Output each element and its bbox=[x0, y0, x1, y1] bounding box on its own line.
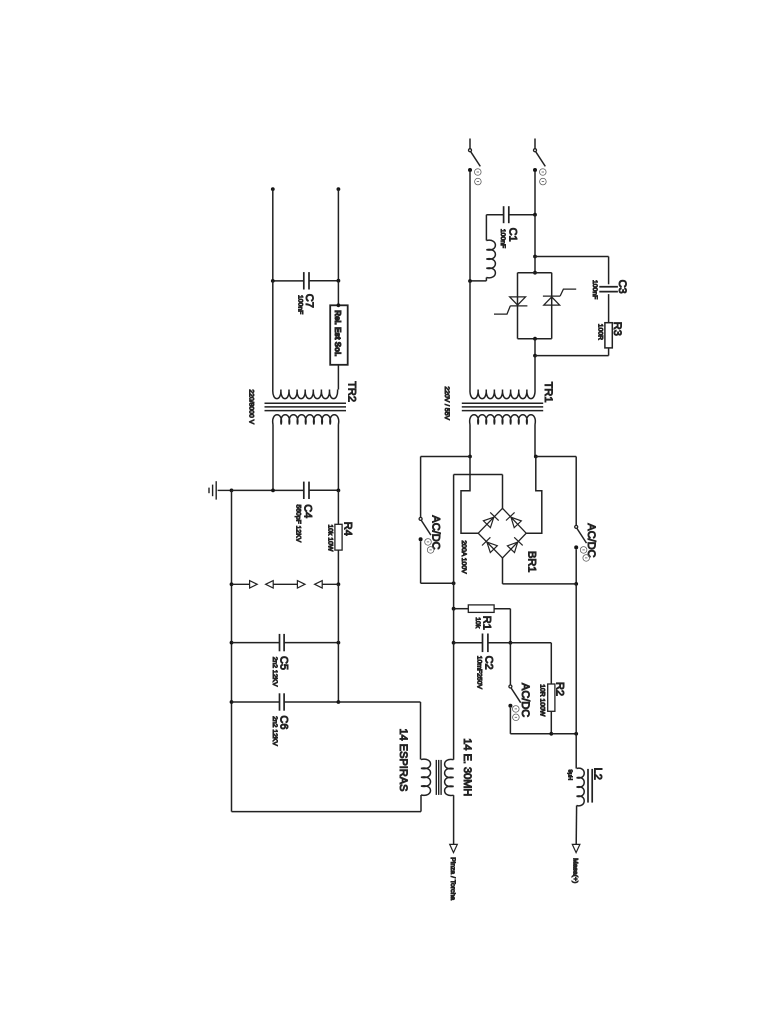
arrow output Pinza/Torcha bbox=[450, 844, 458, 852]
wire bbox=[338, 701, 420, 703]
wire bbox=[309, 489, 338, 491]
junction bbox=[230, 582, 234, 586]
capacitor C3 bbox=[599, 287, 618, 292]
contact bbox=[419, 537, 423, 541]
wire bbox=[534, 356, 536, 390]
node: HV input right bbox=[337, 187, 341, 191]
wire bbox=[470, 280, 486, 282]
relay box Rel. Est Sol. bbox=[330, 305, 348, 365]
svg-text:560pF 12KV: 560pF 12KV bbox=[295, 505, 302, 543]
capacitor C2 bbox=[483, 634, 488, 653]
wire to bridge AC right bbox=[526, 457, 542, 534]
wire switch S2 input stub bbox=[534, 139, 536, 149]
wire bbox=[454, 642, 483, 644]
wire bbox=[454, 608, 469, 610]
svg-text:10R 100W: 10R 100W bbox=[538, 684, 545, 717]
switch AC/DC (left) bbox=[419, 517, 422, 520]
junction bbox=[337, 279, 341, 283]
wire bbox=[322, 583, 338, 585]
wire bbox=[503, 583, 577, 585]
wire bbox=[510, 642, 551, 644]
svg-text:14 ESPIRAS: 14 ESPIRAS bbox=[397, 729, 409, 792]
switch terminal symbol bbox=[475, 178, 482, 185]
junction bbox=[468, 455, 472, 459]
wire bridge - output bbox=[502, 558, 504, 584]
wire right DC rail bbox=[575, 584, 577, 734]
junction bbox=[574, 732, 578, 736]
switch terminal symbol bbox=[513, 714, 520, 721]
resistor R4 bbox=[335, 524, 342, 550]
junction bbox=[337, 641, 341, 645]
inductor L1 coil bbox=[486, 240, 495, 278]
wire bbox=[337, 425, 339, 491]
wire bbox=[309, 280, 338, 282]
wire bottom return bbox=[232, 811, 422, 813]
junction bbox=[271, 279, 275, 283]
junction bbox=[230, 700, 234, 704]
wire bbox=[420, 795, 422, 812]
arrow output Masa(+) bbox=[572, 844, 580, 852]
wire bbox=[420, 541, 422, 583]
wire bbox=[534, 425, 536, 457]
wire left DC rail bbox=[453, 475, 455, 609]
wire bridge + output bbox=[502, 475, 504, 509]
wire bbox=[453, 643, 455, 760]
junction bbox=[230, 641, 234, 645]
wire bbox=[469, 281, 471, 390]
wire bbox=[337, 365, 339, 390]
contact bbox=[508, 704, 512, 708]
junction bbox=[574, 582, 578, 586]
wire left HV rail bbox=[231, 490, 233, 811]
wire bbox=[608, 257, 610, 285]
svg-text:C3: C3 bbox=[616, 280, 628, 294]
wire switch S1 input stub bbox=[469, 139, 471, 149]
wire bbox=[337, 643, 339, 702]
switch S2 (mains right) bbox=[534, 149, 537, 152]
svg-text:C1: C1 bbox=[506, 228, 518, 242]
diode D1 bbox=[483, 517, 493, 528]
junction bbox=[534, 455, 538, 459]
wire bbox=[454, 474, 503, 476]
svg-text:2n2 12KV: 2n2 12KV bbox=[271, 716, 278, 746]
wire snubber return bbox=[535, 355, 609, 357]
contact bbox=[468, 168, 472, 172]
TR2 core bbox=[265, 403, 347, 410]
wire bbox=[534, 215, 536, 257]
switch terminal symbol bbox=[425, 539, 432, 546]
wire bbox=[608, 348, 610, 356]
contact bbox=[574, 545, 578, 549]
resistor R1 bbox=[468, 605, 494, 613]
switch terminal symbol bbox=[475, 169, 482, 176]
thyristor SCR2 (right, cathode up) bbox=[544, 297, 560, 305]
wire bbox=[534, 339, 536, 356]
junction bbox=[468, 279, 472, 283]
wire bbox=[550, 711, 552, 734]
diode D3 bbox=[487, 542, 497, 552]
wire bbox=[494, 608, 510, 610]
HF coupling core bars bbox=[436, 760, 441, 795]
switch terminal symbol bbox=[427, 547, 434, 554]
contact bbox=[533, 168, 537, 172]
junction ground node bbox=[230, 489, 234, 493]
svg-text:C6: C6 bbox=[277, 715, 289, 729]
wire bbox=[337, 550, 339, 584]
wire bbox=[272, 281, 274, 390]
svg-text:BR1: BR1 bbox=[526, 551, 538, 572]
wire to snubber bbox=[535, 256, 609, 258]
wire bbox=[453, 795, 455, 844]
switch terminal symbol bbox=[540, 169, 547, 176]
wire bbox=[486, 214, 503, 216]
svg-text:C7: C7 bbox=[303, 294, 315, 308]
wire bbox=[509, 708, 511, 734]
wire bbox=[509, 609, 511, 643]
junction bbox=[533, 213, 537, 217]
switch terminal symbol bbox=[583, 555, 590, 562]
inductor 14 E. 30MH coil bbox=[445, 759, 454, 795]
ground symbol bbox=[209, 481, 232, 499]
svg-text:AC/DC: AC/DC bbox=[585, 523, 597, 557]
wire bbox=[550, 643, 552, 684]
svg-text:Rel. Est Sol.: Rel. Est Sol. bbox=[333, 310, 342, 356]
svg-text:100R: 100R bbox=[596, 324, 603, 340]
wire bbox=[273, 583, 297, 585]
inductor L2 coil bbox=[577, 768, 585, 806]
svg-text:TR2: TR2 bbox=[346, 381, 358, 402]
junction bbox=[533, 354, 537, 358]
junction bbox=[533, 337, 537, 341]
transformer TR1 primary winding bbox=[470, 390, 535, 399]
capacitor C5 bbox=[280, 634, 285, 651]
wire bbox=[453, 609, 455, 643]
junction bbox=[337, 489, 341, 493]
resistor R3 bbox=[605, 323, 612, 348]
diode D4 bbox=[507, 542, 517, 552]
spark gap arrow right bbox=[250, 581, 258, 588]
wire bbox=[575, 457, 577, 526]
thyristor SCR1 (left, cathode down) bbox=[510, 297, 526, 305]
wire bbox=[337, 281, 339, 306]
svg-text:Pinza / Torcha: Pinza / Torcha bbox=[449, 857, 456, 900]
transformer TR2 secondary winding bbox=[273, 415, 339, 425]
junction at relay top bbox=[337, 303, 341, 307]
svg-text:14 E. 30MH: 14 E. 30MH bbox=[461, 738, 473, 796]
junction bbox=[337, 700, 341, 704]
svg-text:R1: R1 bbox=[480, 616, 492, 630]
thyristor block frame bbox=[518, 272, 552, 274]
switch terminal symbol bbox=[580, 547, 587, 554]
wire bbox=[273, 280, 303, 282]
junction bbox=[509, 641, 513, 645]
wire bbox=[510, 733, 551, 735]
svg-text:2n2 12KV: 2n2 12KV bbox=[271, 657, 278, 687]
wire bbox=[575, 734, 577, 769]
junction bbox=[337, 582, 341, 586]
junction bbox=[452, 581, 456, 585]
wire bbox=[534, 257, 536, 273]
junction bbox=[533, 255, 537, 259]
svg-text:C5: C5 bbox=[277, 656, 289, 670]
wire bbox=[608, 294, 610, 323]
wire bbox=[421, 456, 470, 458]
switch S1 (mains left) bbox=[469, 149, 472, 152]
junction bbox=[549, 732, 553, 736]
resistor R2 bbox=[548, 684, 555, 711]
diode D2 bbox=[511, 517, 521, 528]
wire bbox=[272, 189, 274, 281]
spark gap arrow right bbox=[297, 581, 305, 588]
svg-text:C4: C4 bbox=[301, 504, 313, 518]
wire bbox=[485, 278, 487, 281]
spark gap arrow left bbox=[315, 581, 323, 588]
svg-text:L2: L2 bbox=[591, 768, 603, 780]
capacitor C6 bbox=[280, 693, 285, 710]
svg-text:10k: 10k bbox=[474, 617, 481, 629]
svg-text:200A 100V: 200A 100V bbox=[460, 540, 467, 574]
wire bbox=[337, 584, 339, 642]
wire bbox=[509, 214, 535, 216]
junction bbox=[533, 271, 537, 275]
junction bbox=[452, 641, 456, 645]
junction bbox=[271, 489, 275, 493]
bridge rectifier BR1 diamond bbox=[478, 508, 526, 558]
wire bbox=[232, 489, 304, 491]
wire bbox=[485, 215, 487, 241]
wire bbox=[420, 702, 422, 760]
capacitor C1 bbox=[504, 206, 509, 223]
node: HV input left bbox=[271, 187, 275, 191]
transformer TR1 secondary winding bbox=[470, 415, 536, 425]
switch terminal symbol bbox=[540, 178, 547, 185]
svg-text:TR1: TR1 bbox=[542, 382, 554, 403]
wire to bridge AC left bbox=[461, 457, 478, 534]
HF coupling coil 14 ESPIRAS bbox=[421, 759, 431, 795]
junction bbox=[452, 607, 456, 611]
wire bbox=[575, 806, 577, 845]
wire bbox=[421, 582, 454, 584]
svg-text:220V / 55V: 220V / 55V bbox=[443, 386, 450, 420]
svg-text:R4: R4 bbox=[341, 522, 353, 536]
svg-text:Masa(+): Masa(+) bbox=[571, 858, 578, 883]
transformer TR2 primary winding bbox=[273, 390, 338, 399]
capacitor C7 bbox=[304, 272, 309, 289]
svg-text:100nF: 100nF bbox=[499, 229, 506, 248]
wire bbox=[337, 189, 339, 281]
SCR2 gate bbox=[560, 289, 576, 296]
wire bbox=[337, 490, 339, 524]
wire bbox=[232, 583, 250, 585]
wire bbox=[469, 172, 471, 281]
svg-text:10mF250V: 10mF250V bbox=[475, 656, 482, 690]
wire bbox=[509, 643, 511, 685]
spark gap arrow left bbox=[266, 581, 274, 588]
svg-text:C2: C2 bbox=[482, 656, 494, 670]
wire bbox=[536, 456, 576, 458]
wire bbox=[551, 733, 576, 735]
svg-text:AC/DC: AC/DC bbox=[519, 683, 531, 717]
svg-text:220/8000 V: 220/8000 V bbox=[247, 389, 254, 424]
svg-text:AC/DC: AC/DC bbox=[429, 515, 441, 549]
svg-text:10k 10W: 10k 10W bbox=[327, 525, 334, 552]
capacitor C4 bbox=[304, 482, 309, 499]
wire bbox=[575, 549, 577, 584]
svg-text:9µH: 9µH bbox=[567, 770, 573, 781]
TR1 core bbox=[462, 403, 543, 410]
SCR1 gate bbox=[494, 306, 510, 314]
svg-text:R2: R2 bbox=[553, 682, 565, 696]
wire bbox=[469, 425, 471, 457]
wire bbox=[420, 457, 422, 518]
svg-text:100nF: 100nF bbox=[591, 280, 598, 299]
wire bbox=[534, 172, 536, 215]
svg-text:100nF: 100nF bbox=[296, 295, 303, 314]
wire bbox=[488, 642, 511, 644]
switch AC/DC (C2 select) bbox=[509, 685, 512, 688]
wire bbox=[272, 425, 274, 491]
switch terminal symbol bbox=[513, 706, 520, 713]
L2 core bars bbox=[588, 769, 592, 803]
svg-text:R3: R3 bbox=[611, 322, 623, 336]
switch AC/DC (right) bbox=[575, 525, 578, 528]
